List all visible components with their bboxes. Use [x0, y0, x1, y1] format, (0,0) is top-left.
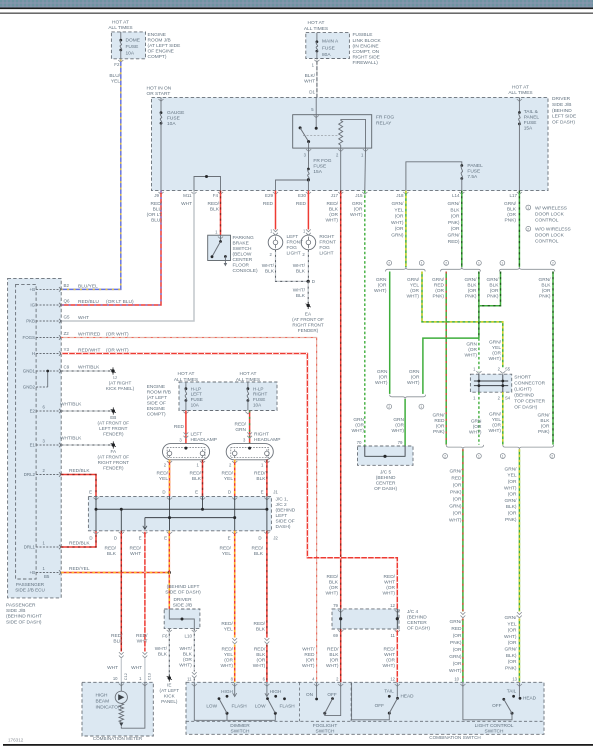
svg-text:(LIGHT): (LIGHT)	[514, 386, 532, 392]
J/C4 internal bars	[340, 609, 342, 629]
ECU pin IG	[36, 304, 61, 306]
svg-text:HEADLAMP: HEADLAMP	[254, 437, 280, 443]
merge brace J18 options to J/C5	[390, 395, 426, 399]
svg-text:G5: G5	[64, 314, 71, 319]
svg-text:LOW: LOW	[255, 704, 266, 709]
svg-text:(OR: (OR	[541, 423, 550, 429]
svg-text:WHT): WHT)	[449, 668, 462, 674]
svg-text:GRN: GRN	[393, 417, 404, 423]
svg-text:HOT AT: HOT AT	[308, 20, 325, 26]
svg-text:BLK: BLK	[329, 580, 339, 586]
svg-text:PKB: PKB	[26, 319, 35, 324]
svg-text:ON: ON	[306, 692, 313, 697]
svg-text:(OR: (OR	[378, 283, 387, 289]
wire RED/BLK J/C4 69 to foglight switch pin2	[340, 629, 342, 683]
wire GRN option2 J18 branch	[389, 272, 391, 394]
svg-text:FUSE: FUSE	[126, 44, 139, 50]
wire GRN option1 node down to short connector pin1	[478, 338, 480, 371]
svg-text:FUSE: FUSE	[467, 168, 480, 174]
svg-text:10A: 10A	[167, 121, 176, 127]
svg-text:(OR: (OR	[183, 657, 192, 663]
svg-text:RED/: RED/	[252, 546, 264, 552]
svg-text:RED/: RED/	[254, 470, 266, 476]
svg-text:CONNECTOR: CONNECTOR	[514, 380, 545, 386]
svg-text:BRAKE: BRAKE	[233, 241, 249, 247]
svg-text:(OR: (OR	[453, 647, 462, 653]
svg-text:RED/: RED/	[157, 470, 169, 476]
svg-text:WHT): WHT)	[464, 352, 477, 358]
svg-text:OFF: OFF	[327, 692, 337, 697]
wire WHT/BLK E2 to ground EB	[61, 410, 113, 412]
svg-text:RED: RED	[174, 424, 185, 430]
svg-text:L14: L14	[452, 193, 460, 198]
svg-text:FOGS: FOGS	[23, 335, 36, 340]
svg-text:GRN): GRN)	[391, 233, 404, 239]
svg-text:BLK: BLK	[254, 551, 264, 557]
foglight lever	[323, 712, 326, 715]
svg-text:J/C 4: J/C 4	[407, 609, 419, 615]
svg-text:(OR: (OR	[224, 658, 233, 664]
svg-text:RED/BLU: RED/BLU	[78, 299, 99, 305]
svg-text:FRONT: FRONT	[319, 240, 336, 246]
svg-text:(OR: (OR	[508, 479, 517, 485]
svg-text:WHT): WHT)	[253, 663, 266, 669]
svg-text:10A: 10A	[191, 402, 200, 407]
svg-text:BLK: BLK	[329, 652, 339, 658]
svg-text:1: 1	[501, 262, 503, 266]
svg-text:KICK: KICK	[164, 693, 176, 698]
svg-text:(OR LT: (OR LT	[147, 212, 162, 218]
wire gauge fuse to J9 pin	[160, 123, 162, 190]
svg-text:RED/: RED/	[384, 574, 396, 580]
svg-text:(OR: (OR	[436, 423, 445, 429]
svg-text:WHT): WHT)	[406, 294, 419, 300]
svg-text:(OR: (OR	[508, 640, 517, 646]
svg-text:CENTER: CENTER	[233, 257, 253, 263]
svg-text:DASH): DASH)	[276, 524, 291, 530]
svg-text:(OR: (OR	[453, 510, 462, 516]
svg-text:WHT: WHT	[384, 580, 395, 586]
connector SHORT CONNECTOR (LIGHT)	[476, 371, 481, 373]
svg-text:D: D	[89, 535, 92, 540]
svg-text:BLU: BLU	[153, 207, 163, 213]
svg-text:GRN: GRN	[377, 369, 388, 375]
svg-text:IE: IE	[167, 682, 171, 687]
svg-text:J17: J17	[331, 193, 339, 198]
fuse H-LP LEFT 10A	[185, 382, 187, 389]
svg-text:COMBINATION METER: COMBINATION METER	[93, 736, 143, 741]
wire RED/YEL right headlamp pin2 to J/C1	[234, 460, 236, 497]
svg-text:RED/: RED/	[327, 647, 339, 653]
svg-text:D1: D1	[309, 90, 315, 95]
svg-text:FUSE: FUSE	[253, 397, 265, 402]
svg-text:E: E	[89, 490, 92, 495]
relay pins 3 2 1	[306, 149, 311, 151]
svg-text:HIGH: HIGH	[221, 689, 233, 694]
svg-text:DRIVER: DRIVER	[173, 597, 192, 603]
svg-text:(OR WHT): (OR WHT)	[106, 347, 129, 353]
svg-text:PNK): PNK)	[505, 517, 517, 523]
lamp right front fog light	[306, 229, 311, 231]
svg-text:79: 79	[398, 440, 403, 445]
svg-text:B5: B5	[44, 574, 50, 579]
J/C1 pin arrows	[93, 498, 98, 500]
meter internal return wire	[121, 682, 145, 728]
svg-text:HIGH: HIGH	[270, 689, 282, 694]
wire WHT to combination meter pin1	[144, 659, 146, 683]
svg-text:(AT FRONT OF: (AT FRONT OF	[97, 455, 129, 460]
svg-text:GND1: GND1	[23, 369, 36, 374]
svg-text:WHT/: WHT/	[293, 288, 306, 294]
svg-text:BLU/YEL: BLU/YEL	[78, 283, 98, 289]
svg-text:WHT): WHT)	[382, 591, 395, 597]
svg-text:GRN/: GRN/	[392, 201, 405, 207]
svg-text:GRN: GRN	[466, 341, 477, 347]
svg-text:LIGHT: LIGHT	[319, 251, 333, 257]
svg-text:LEFT FRONT: LEFT FRONT	[99, 426, 127, 431]
lamp high beam indicator	[120, 682, 122, 691]
wire L17 feed to split	[518, 191, 520, 268]
svg-text:YEL: YEL	[222, 551, 231, 557]
wire bridge M11 to F4	[194, 177, 221, 191]
svg-text:BLK: BLK	[296, 269, 306, 275]
svg-text:WHT): WHT)	[351, 428, 364, 434]
svg-text:FUSE: FUSE	[167, 116, 180, 122]
svg-text:ALL TIMES: ALL TIMES	[304, 26, 328, 32]
svg-text:GRN/: GRN/	[448, 233, 461, 239]
svg-text:YEL: YEL	[224, 627, 233, 633]
svg-text:BLK: BLK	[107, 551, 117, 557]
J/C1 bus bar 1	[96, 508, 267, 510]
lamp left headlamp	[163, 444, 210, 460]
svg-text:WHT: WHT	[130, 551, 141, 557]
fusebox engine room R/B	[179, 382, 277, 411]
svg-text:SIDE J/B: SIDE J/B	[552, 102, 571, 108]
svg-text:WHT): WHT)	[488, 356, 501, 362]
svg-text:(OR: (OR	[395, 214, 404, 220]
svg-text:E30: E30	[298, 193, 307, 198]
wire RED/BLK left headlamp pin1 to J/C1	[202, 460, 204, 497]
svg-text:SIDE OF DASH): SIDE OF DASH)	[165, 590, 201, 596]
relay FR FOG RELAY	[293, 115, 372, 148]
svg-text:GRN: GRN	[376, 277, 387, 283]
svg-text:CONTROL: CONTROL	[535, 239, 559, 245]
svg-text:PNK): PNK)	[538, 429, 550, 435]
svg-text:J/C 5: J/C 5	[380, 469, 392, 475]
merge brace light control pin13 options	[503, 445, 554, 449]
svg-text:OF ENGINE: OF ENGINE	[148, 48, 174, 54]
svg-text:D: D	[258, 535, 261, 540]
svg-text:11: 11	[390, 633, 395, 638]
svg-text:OFF: OFF	[492, 703, 502, 708]
svg-text:BLK: BLK	[541, 283, 551, 289]
svg-text:HIGH: HIGH	[96, 692, 109, 698]
node D junction	[307, 280, 310, 283]
svg-text:J2: J2	[273, 535, 278, 540]
svg-text:KICK PANEL): KICK PANEL)	[106, 386, 135, 391]
svg-text:SIDE OF: SIDE OF	[147, 401, 166, 407]
svg-text:GRN/: GRN/	[407, 277, 420, 283]
wire relay pin2 to J17	[340, 148, 342, 191]
ECU pin +B	[36, 572, 61, 574]
svg-text:PNK): PNK)	[433, 294, 445, 300]
svg-text:L10: L10	[184, 633, 192, 638]
note option 1 with wireless door lock	[526, 205, 531, 210]
svg-text:WHT/: WHT/	[302, 647, 315, 653]
svg-text:RED/: RED/	[130, 546, 142, 552]
lamp right headlamp	[226, 444, 273, 460]
svg-text:RED/: RED/	[327, 201, 339, 207]
svg-text:WHT): WHT)	[325, 218, 338, 224]
svg-text:OF DASH): OF DASH)	[552, 119, 575, 125]
wire WHT/BLK F6 to ground IE	[168, 629, 170, 676]
svg-text:GRN: GRN	[353, 417, 364, 423]
svg-text:BLK: BLK	[256, 652, 266, 658]
driver J/B pins F6 L10	[167, 630, 172, 632]
wire RED/YEL left headlamp pin2 to J/C1	[169, 460, 171, 497]
svg-text:SWITCH: SWITCH	[231, 729, 250, 735]
wire RED/WHT H to J/C4 pin 12	[61, 354, 397, 609]
svg-text:(OR: (OR	[473, 424, 482, 430]
svg-text:DRIVER: DRIVER	[552, 96, 571, 102]
svg-text:WHT): WHT)	[504, 634, 517, 640]
svg-text:CONSOLE): CONSOLE)	[233, 268, 258, 274]
svg-text:GRN/: GRN/	[505, 615, 518, 621]
svg-text:(OR: (OR	[329, 212, 338, 218]
svg-text:FENDER): FENDER)	[103, 432, 124, 437]
svg-text:PNK): PNK)	[505, 218, 517, 224]
svg-text:GRN/: GRN/	[505, 647, 518, 653]
svg-text:BLK): BLK)	[506, 653, 517, 659]
wire GRN/YEL short connector pin2 down to merge	[502, 392, 504, 444]
svg-text:C12: C12	[123, 673, 128, 680]
svg-text:(OR: (OR	[468, 288, 477, 294]
svg-text:HEAD: HEAD	[523, 696, 537, 701]
ground EB at front of left front fender	[112, 409, 115, 412]
fuse PANEL 7.5A with J18 bridge	[406, 162, 462, 191]
wire GRN/YEL merged to light control switch pin13	[518, 449, 520, 611]
svg-text:TAIL: TAIL	[507, 688, 517, 693]
fuse H-LP RIGHT 10A	[247, 382, 249, 389]
svg-text:J15: J15	[355, 193, 363, 198]
svg-text:MAIN A: MAIN A	[322, 39, 339, 45]
svg-text:(OR: (OR	[411, 374, 420, 380]
ground FA at front of right front fender	[112, 443, 115, 446]
svg-text:CENTER: CENTER	[376, 480, 396, 486]
relay coil	[339, 120, 343, 145]
svg-text:F2: F2	[114, 62, 120, 67]
svg-text:FUSE: FUSE	[322, 45, 335, 51]
ECU pin FOGS	[36, 337, 61, 339]
svg-text:YEL: YEL	[159, 476, 168, 482]
svg-text:10: 10	[454, 676, 459, 681]
svg-text:BLK: BLK	[256, 627, 266, 633]
svg-text:PASSENGER: PASSENGER	[6, 603, 36, 609]
svg-text:80A: 80A	[322, 52, 331, 58]
svg-text:RIGHT SIDE: RIGHT SIDE	[353, 55, 380, 61]
svg-text:GRN/: GRN/	[539, 277, 552, 283]
svg-text:RED/: RED/	[136, 633, 148, 639]
svg-text:(AT FRONT OF: (AT FRONT OF	[292, 317, 324, 322]
svg-text:GRN/: GRN/	[448, 201, 461, 207]
J/B bottom pin arrows	[158, 192, 163, 194]
svg-text:WHT): WHT)	[488, 428, 501, 434]
svg-text:(OR: (OR	[468, 347, 477, 353]
svg-text:ENGINE: ENGINE	[148, 32, 166, 38]
switch parking brake	[208, 235, 231, 260]
junction connector J/C1 J/C2 box	[88, 496, 271, 530]
svg-text:BLU/: BLU/	[109, 73, 120, 79]
wire RED/BLK J/C1 to combination meter	[120, 531, 122, 652]
svg-text:YEL: YEL	[492, 345, 501, 351]
svg-text:RED/: RED/	[327, 574, 339, 580]
svg-text:GRN/: GRN/	[489, 411, 502, 417]
svg-text:E: E	[195, 490, 198, 495]
svg-text:DOOR LOCK: DOOR LOCK	[535, 211, 565, 217]
svg-text:BLK: BLK	[210, 207, 220, 213]
svg-text:GRN/: GRN/	[432, 277, 445, 283]
svg-text:(OR: (OR	[395, 226, 404, 232]
svg-text:RED/: RED/	[254, 647, 266, 653]
J/C1 internal verticals	[95, 496, 97, 530]
wire RED/YEL J/C1 to driver side J/B	[168, 531, 170, 609]
svg-text:E2: E2	[30, 409, 36, 414]
svg-text:YEL: YEL	[224, 652, 233, 658]
junction connector J/C4 box	[332, 609, 399, 629]
wire RED/BLK F4 to parking brake switch	[220, 191, 222, 236]
ECU pin PKB	[36, 320, 61, 322]
wire RED/BLK DRL1 to J/C1 bottom pin D	[61, 531, 96, 547]
svg-text:(AT LEFT: (AT LEFT	[160, 688, 180, 693]
svg-text:PNK): PNK)	[433, 429, 445, 435]
svg-text:BLK: BLK	[540, 418, 550, 424]
svg-text:GRN/: GRN/	[487, 277, 500, 283]
wire L14 feed to split	[461, 191, 463, 268]
svg-text:S4: S4	[505, 395, 511, 400]
svg-text:W/O WIRELESS: W/O WIRELESS	[535, 227, 571, 233]
svg-text:WHT): WHT)	[179, 662, 192, 668]
svg-text:BEAM: BEAM	[96, 698, 110, 704]
svg-text:BLK: BLK	[183, 651, 193, 657]
wire RED/WHT J/C4 11 to light control switch pin12	[396, 629, 398, 683]
svg-text:PANEL: PANEL	[524, 115, 540, 121]
svg-text:WHT): WHT)	[374, 288, 387, 294]
svg-text:BLK: BLK	[489, 283, 499, 289]
svg-text:SIDE OF: SIDE OF	[276, 519, 295, 525]
svg-text:RIGHT: RIGHT	[254, 431, 269, 437]
svg-text:2: 2	[388, 405, 390, 409]
svg-text:FOG: FOG	[287, 245, 298, 251]
ECU pin +B	[36, 288, 61, 290]
svg-text:(OR LT BLU): (OR LT BLU)	[106, 299, 134, 305]
wire GRN option1 node to merge stub	[423, 338, 479, 394]
wire GRN/RED merged to light control switch pin10	[462, 449, 464, 611]
svg-text:(AT LEFT SIDE: (AT LEFT SIDE	[148, 43, 181, 49]
svg-text:F6: F6	[162, 633, 168, 638]
svg-text:RED/: RED/	[254, 621, 266, 627]
svg-text:WHT/: WHT/	[293, 263, 306, 269]
svg-text:H: H	[32, 351, 35, 356]
svg-text:RED/: RED/	[222, 647, 234, 653]
svg-text:FOGLIGHT: FOGLIGHT	[313, 723, 338, 729]
svg-text:YEL: YEL	[492, 417, 501, 423]
svg-text:WHT/: WHT/	[262, 263, 275, 269]
svg-text:WHT): WHT)	[350, 212, 363, 218]
split brace J18 options	[386, 267, 426, 271]
svg-text:2: 2	[445, 262, 447, 266]
svg-text:RED/BLK: RED/BLK	[69, 468, 90, 474]
wire RED/YEL J/C1 to dimmer switch pin8	[234, 531, 236, 638]
svg-text:WHT): WHT)	[375, 380, 388, 386]
svg-text:GRN: GRN	[352, 201, 363, 207]
svg-text:RELAY: RELAY	[376, 120, 392, 126]
svg-text:ALL TIMES: ALL TIMES	[508, 90, 532, 96]
ECU pin H	[36, 353, 61, 355]
svg-text:EB: EB	[110, 415, 116, 420]
svg-text:(OR: (OR	[355, 423, 364, 429]
dimmer common bus	[194, 683, 275, 720]
svg-text:(OR: (OR	[453, 661, 462, 667]
svg-text:RED/YEL: RED/YEL	[69, 566, 90, 572]
wire RED/GRN h-lp right fuse to right headlamp	[249, 411, 251, 444]
svg-text:OF DASH): OF DASH)	[374, 486, 397, 492]
svg-text:SIDE J/B: SIDE J/B	[6, 608, 25, 614]
svg-text:SHORT: SHORT	[514, 374, 531, 380]
svg-text:COMPT, ON: COMPT, ON	[353, 49, 380, 55]
svg-text:J18: J18	[396, 193, 404, 198]
ECU pin E2	[36, 410, 61, 412]
svg-text:LEFT: LEFT	[191, 431, 203, 437]
svg-text:(OR: (OR	[453, 496, 462, 502]
svg-text:7.5A: 7.5A	[467, 174, 478, 180]
svg-text:YEL: YEL	[394, 207, 403, 213]
svg-text:(AT FRONT OF: (AT FRONT OF	[97, 421, 129, 426]
svg-text:FOG: FOG	[319, 245, 330, 251]
svg-text:OF DASH): OF DASH)	[514, 404, 537, 410]
svg-text:H-LP: H-LP	[191, 386, 201, 391]
svg-text:12: 12	[390, 603, 395, 608]
fuse GAUGE 10A	[160, 97, 162, 112]
svg-text:GAUGE: GAUGE	[167, 110, 184, 116]
dimmer lever 2	[274, 712, 277, 715]
svg-text:(OR: (OR	[492, 350, 501, 356]
svg-text:COMPT): COMPT)	[147, 412, 166, 418]
svg-text:LIGHT CONTROL: LIGHT CONTROL	[475, 723, 514, 729]
svg-text:(BEHIND: (BEHIND	[407, 615, 427, 621]
svg-text:(OR: (OR	[508, 659, 517, 665]
svg-text:(OR: (OR	[257, 658, 266, 664]
svg-text:H-LP: H-LP	[253, 386, 263, 391]
svg-text:GRN/: GRN/	[505, 466, 518, 472]
svg-text:RED/BLK: RED/BLK	[69, 540, 90, 546]
svg-text:Y3: Y3	[64, 347, 70, 352]
wire RED/YEL +B(B5) to driver side J/B feed	[61, 572, 169, 574]
svg-text:PNK): PNK)	[450, 489, 462, 495]
svg-text:SIDE J/B: SIDE J/B	[173, 602, 192, 608]
svg-text:(OR: (OR	[453, 633, 462, 639]
svg-text:RED/: RED/	[151, 201, 163, 207]
svg-text:FR FOG: FR FOG	[313, 158, 331, 164]
foglight contacts	[316, 683, 318, 698]
svg-text:WHT: WHT	[131, 665, 142, 671]
svg-text:PNK): PNK)	[487, 294, 499, 300]
svg-text:COMBINATION SWITCH: COMBINATION SWITCH	[429, 735, 480, 740]
svg-text:WHT/BLK: WHT/BLK	[60, 435, 82, 441]
svg-text:(OR: (OR	[451, 226, 460, 232]
driver J/B internal link	[169, 609, 194, 629]
svg-text:2: 2	[552, 262, 554, 266]
split brace L17 options	[499, 267, 555, 271]
